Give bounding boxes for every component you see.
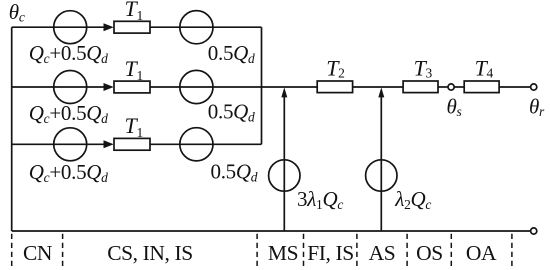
source 0.5Qd row3 xyxy=(180,128,213,161)
source Qc+0.5Qd row1 xyxy=(54,11,87,44)
arrowhead row1 xyxy=(104,23,114,31)
svg-text:FI, IS: FI, IS xyxy=(307,241,354,265)
svg-text:T1: T1 xyxy=(125,56,143,83)
arrowhead lambda1 branch xyxy=(281,87,287,97)
svg-text:T3: T3 xyxy=(414,56,433,81)
wire row2 middle xyxy=(150,86,317,88)
svg-text:AS: AS xyxy=(369,241,396,265)
svg-text:T2: T2 xyxy=(326,56,344,81)
terminal theta_r xyxy=(531,84,537,90)
svg-text:CS, IN, IS: CS, IN, IS xyxy=(107,241,193,265)
svg-text:0.5Qd: 0.5Qd xyxy=(208,41,255,66)
separator AS/OS xyxy=(406,234,408,266)
arrowhead row3 xyxy=(104,140,114,148)
svg-text:λ2Qc: λ2Qc xyxy=(394,187,431,212)
wire lambda2 branch xyxy=(380,96,382,232)
svg-text:θs: θs xyxy=(447,95,462,120)
resistor T1 row3 xyxy=(114,138,150,150)
arrowhead row2 xyxy=(104,83,114,91)
separator FI/AS xyxy=(356,234,358,266)
resistor T4 xyxy=(464,81,499,93)
wire T4 to terminal xyxy=(499,86,530,88)
wire lambda1 branch xyxy=(283,96,285,232)
svg-text:θc: θc xyxy=(9,0,25,25)
wire row2 left xyxy=(12,86,105,88)
wire node S to T4 xyxy=(454,86,464,88)
wire row3 left xyxy=(12,143,105,145)
arrowhead lambda2 branch xyxy=(378,87,384,97)
terminal bottom right xyxy=(531,228,537,234)
separator OS/OA xyxy=(450,234,452,266)
source Qc+0.5Qd row2 xyxy=(54,71,87,104)
wire T3 to node S xyxy=(438,86,448,88)
svg-text:OS: OS xyxy=(416,241,443,265)
node theta_s xyxy=(448,84,454,90)
separator CN left xyxy=(11,234,13,266)
svg-text:T4: T4 xyxy=(475,56,494,81)
svg-text:OA: OA xyxy=(466,241,497,265)
svg-text:3λ1Qc: 3λ1Qc xyxy=(297,187,343,212)
svg-text:Qc+0.5Qd: Qc+0.5Qd xyxy=(29,160,108,185)
svg-text:0.5Qd: 0.5Qd xyxy=(208,99,255,124)
separator MS/FI xyxy=(303,234,305,266)
wire left bus xyxy=(11,27,13,231)
wire row3 right xyxy=(150,143,262,145)
resistor T1 row2 xyxy=(114,81,150,93)
wire row1 left xyxy=(12,26,105,28)
svg-text:T1: T1 xyxy=(125,113,143,140)
wire row1 right xyxy=(150,26,262,28)
source 0.5Qd row1 xyxy=(180,11,213,44)
svg-text:Qc+0.5Qd: Qc+0.5Qd xyxy=(29,101,108,126)
resistor T1 row1 xyxy=(114,21,150,33)
svg-text:MS: MS xyxy=(268,241,298,265)
separator CS/MS xyxy=(256,234,258,266)
svg-text:Qc+0.5Qd: Qc+0.5Qd xyxy=(29,41,108,66)
svg-text:T1: T1 xyxy=(125,0,143,23)
resistor T2 xyxy=(317,81,352,93)
separator OA right xyxy=(511,234,513,266)
separator CN/CS xyxy=(62,234,64,266)
source lambda2Qc xyxy=(366,160,397,191)
svg-text:CN: CN xyxy=(23,241,53,265)
wire right bus xyxy=(261,27,263,144)
resistor T3 xyxy=(403,81,438,93)
source 0.5Qd row2 xyxy=(180,70,213,103)
source Qc+0.5Qd row3 xyxy=(54,128,87,161)
svg-text:θr: θr xyxy=(529,95,545,120)
wire T2 to T3 xyxy=(353,86,404,88)
source 3lambda1Qc xyxy=(269,160,300,191)
wire bottom rail xyxy=(12,230,531,232)
svg-text:0.5Qd: 0.5Qd xyxy=(211,159,258,184)
